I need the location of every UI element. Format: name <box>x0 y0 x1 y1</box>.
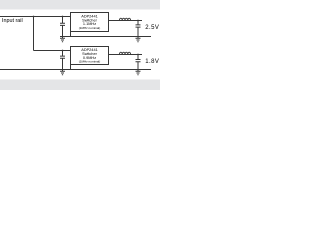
junction dot: input rail / drop <box>33 16 35 18</box>
regulator U1 box (upper ADP2441) <box>71 13 109 32</box>
wire: stub box2 gnd <box>70 65 72 70</box>
svg-text:(1MHz nominal): (1MHz nominal) <box>79 60 101 64</box>
junction dot: lower output / C4 <box>137 54 139 56</box>
wire: lower converter input <box>34 50 71 52</box>
wire: upper return rail <box>60 36 151 38</box>
wire: upper output <box>109 20 143 22</box>
U1 label text <box>79 15 101 30</box>
bottom grey band <box>0 80 160 91</box>
svg-text:1.8V: 1.8V <box>145 59 159 65</box>
wire: stub box1 gnd <box>70 32 72 37</box>
ground G1 (under upper input cap) <box>60 37 65 42</box>
ground G3 (under lower input cap) <box>60 70 65 75</box>
regulator U2 box (lower ADP2441) <box>71 47 109 65</box>
wire: input rail horizontal <box>0 16 71 18</box>
U2 label text <box>79 48 101 63</box>
wire: lower return rail <box>0 69 151 71</box>
ground G4 (under lower output cap) <box>136 70 141 75</box>
inductor L2 (lower) <box>119 52 130 54</box>
capacitor C2 (upper output cap) <box>136 21 141 37</box>
top grey band <box>0 0 160 10</box>
capacitor C1 (upper input cap) <box>60 17 65 37</box>
junction dot: lower input / C3 <box>62 50 64 52</box>
capacitor C4 (lower output cap) <box>136 55 141 70</box>
wire: lower output <box>109 54 143 56</box>
svg-text:(1MHz nominal): (1MHz nominal) <box>79 26 101 30</box>
junction dot: input rail / C1 <box>62 16 64 18</box>
wire: drop from input rail to lower converter <box>33 17 35 51</box>
inductor L1 (upper) <box>119 18 130 20</box>
capacitor C3 (lower input cap) <box>60 51 65 70</box>
svg-text:2.5V: 2.5V <box>145 25 159 31</box>
ground G2 (under upper output cap) <box>136 37 141 42</box>
svg-text:Input rail: Input rail <box>2 18 23 24</box>
junction dot: upper output / C2 <box>137 20 139 22</box>
